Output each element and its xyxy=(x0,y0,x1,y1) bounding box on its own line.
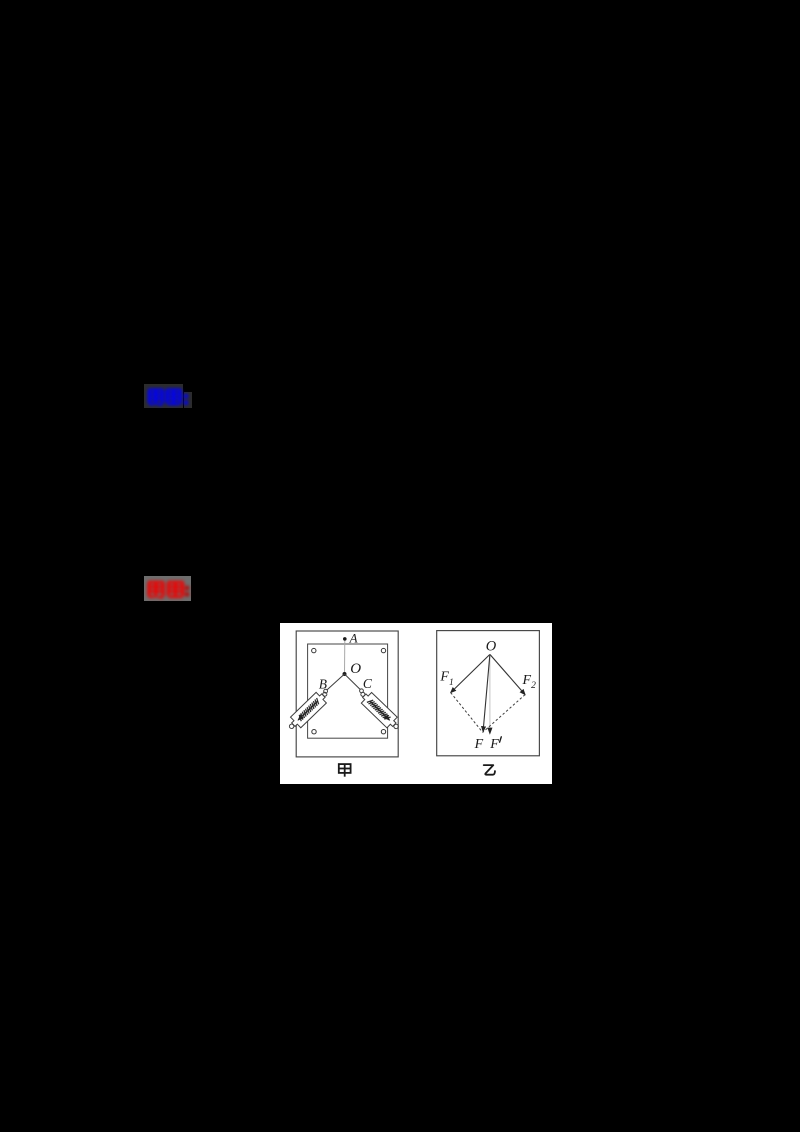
string O to B xyxy=(327,674,344,690)
dashed parallelogram side F2-F xyxy=(482,695,524,733)
force F2 arrow xyxy=(490,655,525,695)
white diagram panel xyxy=(280,623,552,783)
left spring scale pull arrow xyxy=(298,702,317,721)
left spring scale body xyxy=(288,691,328,731)
blue answer label colon highlight background xyxy=(184,392,193,408)
prime tick of F' xyxy=(499,737,501,742)
caption yi (CJK) xyxy=(483,765,494,775)
svg-text:O: O xyxy=(486,639,497,655)
left spring scale outer ring xyxy=(288,724,294,730)
measured F' arrowhead xyxy=(487,728,492,735)
dashed parallelogram side F1-F xyxy=(450,693,482,733)
svg-text:F: F xyxy=(439,670,449,685)
svg-text:O: O xyxy=(350,661,361,677)
right spring scale xyxy=(356,688,403,734)
svg-text:F: F xyxy=(489,737,499,752)
svg-text:B: B xyxy=(319,677,327,692)
rubber band A-O (light) xyxy=(343,639,345,674)
svg-text:1: 1 xyxy=(449,678,454,688)
red analysis label highlight background xyxy=(144,576,192,601)
force F1 arrow xyxy=(450,655,489,693)
paper pin bottom-left xyxy=(312,730,316,734)
caption jia (CJK) xyxy=(339,764,351,777)
paper pin bottom-right xyxy=(381,730,385,734)
measured F' arrow shaft (light) xyxy=(489,655,491,734)
svg-text:C: C xyxy=(363,676,373,691)
right spring scale hook ring xyxy=(360,692,366,698)
string loop B xyxy=(323,690,327,694)
left wooden board (outer rectangle) xyxy=(296,631,398,757)
paper pin top-left xyxy=(311,649,315,653)
resultant F arrow (parallelogram diagonal) xyxy=(483,655,490,732)
right spring scale body xyxy=(359,691,399,731)
left spring scale xyxy=(285,688,332,734)
blue answer label highlight background xyxy=(144,384,183,408)
red analysis label text (blurred CJK strokes) xyxy=(139,572,199,606)
svg-text:2: 2 xyxy=(531,681,536,691)
right panel box xyxy=(436,631,539,756)
left paper sheet (inner rectangle) xyxy=(307,644,387,738)
string O to C xyxy=(344,674,360,689)
right spring scale hatch band xyxy=(367,698,391,721)
blue answer label text (blurred CJK strokes) xyxy=(140,380,200,412)
string loop C xyxy=(359,689,363,693)
svg-text:F: F xyxy=(521,673,531,688)
point A dot xyxy=(343,637,347,641)
right spring scale outer ring xyxy=(393,724,399,730)
right spring scale pull arrow xyxy=(370,702,389,721)
point O dot xyxy=(342,672,346,676)
left spring scale hook ring xyxy=(322,692,328,698)
paper pin top-right xyxy=(381,649,385,653)
svg-text:F: F xyxy=(473,737,483,752)
svg-text:A: A xyxy=(348,631,357,646)
left spring scale hatch band xyxy=(297,698,321,721)
